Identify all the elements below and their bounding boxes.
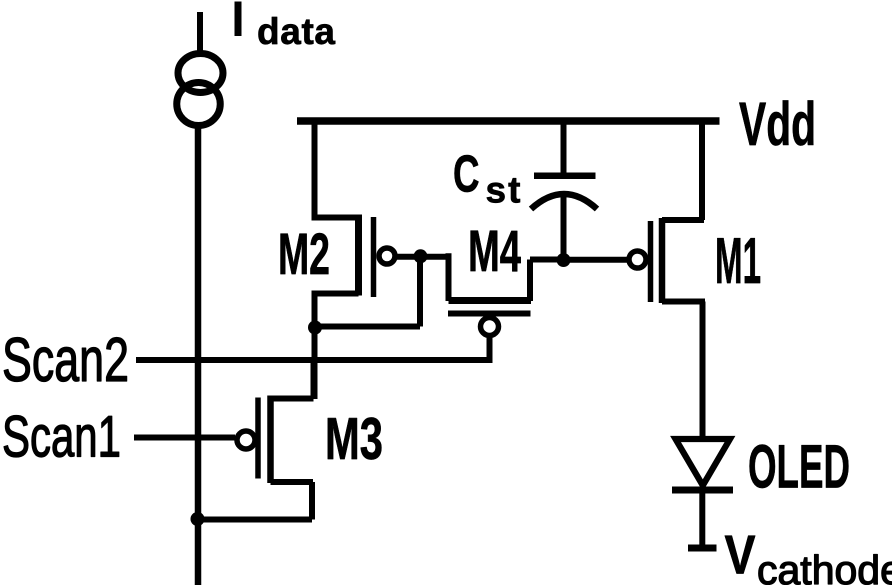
wire Vdd rail [297,117,720,125]
wire Vdd to M2 source [312,118,318,218]
wire M2 drain to M3 source [312,294,318,400]
wire node A to M2 drain [315,324,421,330]
label Cst [453,146,521,211]
node D dot [557,253,571,267]
wire node D to M1 gate [564,257,629,263]
svg-text:Vdd: Vdd [739,90,816,158]
wire data line vertical [195,126,202,585]
svg-text:data: data [257,11,335,52]
wire M1 source to Vdd [699,118,705,220]
wire node A down [417,256,423,327]
wire M4 gate to Scan2 [487,335,493,360]
transistor M3 [237,396,314,484]
wire M2 gate to node A [395,254,451,260]
svg-text:M4: M4 [468,219,521,284]
wire Scan1 [134,435,235,441]
wire M3 drain down [309,482,315,520]
transistor M1 [629,218,705,303]
wire M3 drain to data line [197,517,312,523]
svg-text:M2: M2 [278,222,330,287]
wire Cst stem top [561,121,567,176]
svg-text:st: st [486,170,521,211]
wire data line top stub [197,12,203,55]
label I_data [235,2,336,53]
node A dot [414,249,428,263]
wire Cst bottom stem [561,193,567,260]
transistor M4 [448,260,564,336]
svg-text:Scan2: Scan2 [2,326,129,395]
svg-text:M1: M1 [715,224,761,297]
svg-text:Scan1: Scan1 [2,405,121,470]
node B dot [308,321,322,335]
svg-text:cathode: cathode [757,547,892,585]
svg-text:M3: M3 [325,406,383,472]
svg-text:C: C [453,146,480,204]
label Vcathode [725,524,892,585]
wire OLED cathode stem [699,490,705,548]
wire M1 drain down [700,302,706,440]
svg-text:OLED: OLED [748,433,850,501]
wire Scan2 [136,357,493,363]
diode OLED [672,439,733,490]
capacitor Cst [531,176,597,209]
current source I_data (two overlapping circles) [178,54,223,93]
terminal bar Vcathode [688,545,717,552]
svg-text:V: V [725,524,756,585]
wire node A to M4 source [446,253,452,301]
node C dot [191,512,205,526]
wire M3 source up [311,360,317,399]
transistor M2 [312,215,396,298]
